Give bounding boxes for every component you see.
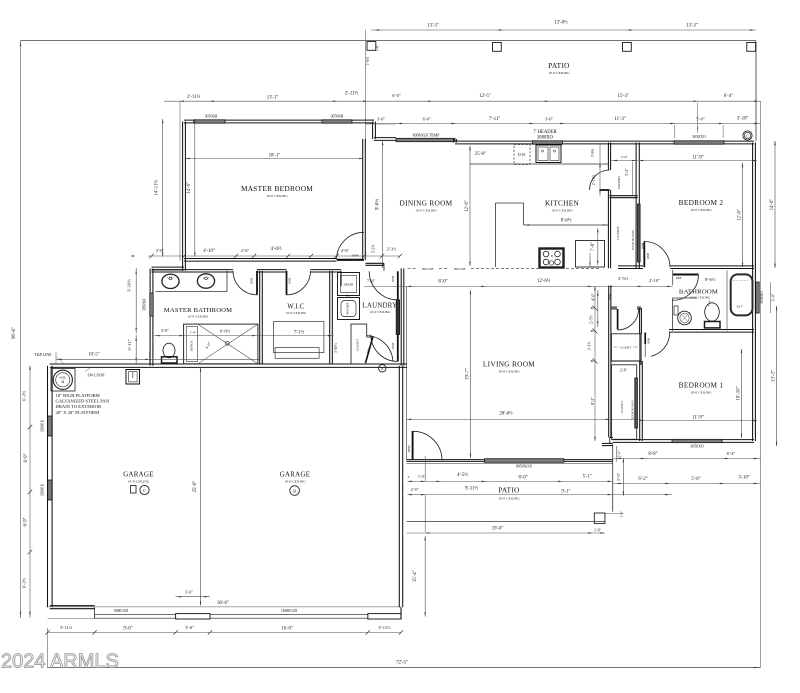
- svg-text:3'-0": 3'-0": [545, 116, 554, 121]
- svg-text:15'-4": 15'-4": [413, 570, 418, 582]
- svg-text:10'-0' CEILING: 10'-0' CEILING: [370, 310, 391, 314]
- svg-text:9'-11½: 9'-11½: [465, 487, 478, 492]
- svg-text:25'-0": 25'-0": [475, 152, 486, 157]
- svg-text:3080XO: 3080XO: [537, 136, 554, 141]
- svg-text:DRYER: DRYER: [344, 283, 354, 287]
- svg-text:PATIO: PATIO: [548, 61, 570, 70]
- svg-text:A: A: [381, 367, 384, 371]
- svg-text:PANTRY: PANTRY: [617, 175, 621, 189]
- svg-text:2868: 2868: [676, 277, 682, 280]
- svg-text:10'-10": 10'-10": [737, 386, 742, 400]
- svg-text:4'-10": 4'-10": [203, 249, 215, 254]
- svg-text:2'-3½: 2'-3½: [387, 247, 398, 252]
- svg-text:14'-0": 14'-0": [770, 199, 775, 211]
- svg-text:2030FX: 2030FX: [41, 484, 45, 496]
- svg-text:9'-0": 9'-0": [123, 627, 132, 632]
- svg-text:3050SH: 3050SH: [331, 115, 344, 119]
- svg-text:7'-1½: 7'-1½: [294, 331, 305, 336]
- svg-text:10'-0' CEILING: 10'-0' CEILING: [188, 315, 209, 319]
- svg-text:3068: 3068: [647, 337, 651, 344]
- svg-text:10'-0' CEILING: 10'-0' CEILING: [548, 71, 570, 75]
- svg-text:14'-6": 14'-6": [187, 182, 192, 194]
- svg-text:10'-0' CEILING: 10'-0' CEILING: [128, 480, 150, 484]
- svg-text:16'-0": 16'-0": [281, 627, 293, 632]
- svg-text:DINING ROOM: DINING ROOM: [400, 199, 453, 208]
- svg-text:6'-2½: 6'-2½: [22, 577, 27, 588]
- svg-text:8'-0": 8'-0": [518, 476, 527, 481]
- svg-text:10'-0' CEILING: 10'-0' CEILING: [690, 391, 712, 395]
- svg-text:B: B: [293, 488, 296, 493]
- svg-text:4'-5½: 4'-5½: [457, 473, 468, 478]
- svg-text:GALVANIZED STEEL PAN: GALVANIZED STEEL PAN: [56, 399, 110, 404]
- svg-text:2024 ARMLS: 2024 ARMLS: [1, 651, 119, 673]
- svg-text:B: B: [551, 254, 553, 258]
- svg-text:13'-3": 13'-3": [772, 370, 777, 382]
- svg-text:13'-0½: 13'-0½: [554, 21, 568, 26]
- svg-text:3'-10": 3'-10": [737, 117, 749, 122]
- svg-text:D.W.: D.W.: [518, 153, 526, 157]
- svg-text:2'-10": 2'-10": [649, 278, 660, 283]
- svg-text:DOOR BI-PASS: DOOR BI-PASS: [631, 230, 635, 250]
- svg-text:3'-10": 3'-10": [738, 476, 750, 481]
- svg-text:1'-0": 1'-0": [376, 44, 380, 52]
- svg-text:2868: 2868: [608, 293, 612, 300]
- svg-text:CLOSET: CLOSET: [356, 339, 360, 351]
- svg-text:4'-0½: 4'-0½: [271, 247, 282, 252]
- svg-text:11'-9": 11'-9": [692, 416, 704, 421]
- svg-text:2030FX: 2030FX: [41, 420, 45, 432]
- svg-text:96'-8": 96'-8": [12, 327, 17, 339]
- svg-text:3'-0": 3'-0": [771, 293, 776, 301]
- svg-text:19'-7": 19'-7": [466, 368, 471, 380]
- svg-text:CLOSET: CLOSET: [620, 401, 624, 413]
- svg-text:MASTER BATHROOM: MASTER BATHROOM: [164, 307, 232, 314]
- svg-text:36'-6": 36'-6": [217, 601, 229, 606]
- svg-text:7'-11": 7'-11": [489, 117, 500, 122]
- svg-text:13'-1": 13'-1": [267, 96, 279, 101]
- svg-text:SW LOOP: SW LOOP: [88, 374, 106, 378]
- svg-text:PATIO: PATIO: [498, 485, 520, 494]
- svg-text:5'-4": 5'-4": [625, 168, 629, 176]
- svg-text:5'-1": 5'-1": [583, 474, 592, 479]
- svg-text:DOOR BI-PASS: DOOR BI-PASS: [631, 400, 635, 420]
- svg-text:72'-5": 72'-5": [396, 661, 408, 666]
- svg-text:DRAIN TO EXTERIOR: DRAIN TO EXTERIOR: [56, 404, 102, 409]
- svg-text:W.H.: W.H.: [59, 375, 66, 379]
- svg-text:7'-0": 7'-0": [367, 279, 376, 284]
- svg-text:1'-6½: 1'-6½: [366, 57, 370, 66]
- svg-text:3'-2½: 3'-2½: [372, 245, 376, 254]
- svg-text:3050SH: 3050SH: [143, 299, 147, 311]
- svg-text:3030XO: 3030XO: [760, 291, 764, 304]
- svg-text:2'-9½: 2'-9½: [591, 149, 595, 158]
- svg-text:1'-0": 1'-0": [418, 475, 425, 479]
- svg-text:2'-11½: 2'-11½: [592, 175, 596, 186]
- svg-text:KITCHEN: KITCHEN: [545, 199, 580, 208]
- svg-text:9'-1": 9'-1": [561, 490, 570, 495]
- svg-text:B04"X8': B04"X8': [422, 267, 434, 271]
- svg-text:5'-0": 5'-0": [616, 472, 621, 481]
- svg-text:2868: 2868: [352, 254, 359, 258]
- svg-text:6'-4": 6'-4": [727, 451, 736, 456]
- svg-text:1'-0": 1'-0": [594, 528, 602, 532]
- svg-text:18'-1": 18'-1": [269, 154, 281, 159]
- svg-text:10'-5": 10'-5": [88, 353, 99, 358]
- svg-text:2868: 2868: [646, 252, 650, 259]
- svg-text:2'-11½: 2'-11½: [345, 92, 358, 97]
- svg-text:CLOSET: CLOSET: [616, 226, 620, 240]
- svg-text:2'-8": 2'-8": [620, 369, 627, 373]
- svg-text:BEDROOM 2: BEDROOM 2: [679, 198, 724, 207]
- svg-text:13'-3": 13'-3": [686, 24, 698, 29]
- svg-text:10'-0' CEILING: 10'-0' CEILING: [415, 209, 437, 213]
- svg-text:6'-2": 6'-2": [638, 477, 647, 482]
- svg-text:14'-11½: 14'-11½: [154, 180, 159, 196]
- svg-text:8'-2": 8'-2": [590, 397, 595, 406]
- svg-text:6'-9": 6'-9": [24, 453, 29, 462]
- svg-text:C: C: [746, 134, 749, 138]
- svg-text:3'-0": 3'-0": [161, 328, 169, 333]
- svg-text:10'-0' CEILING: 10'-0' CEILING: [690, 295, 711, 299]
- svg-text:3'-1½: 3'-1½: [588, 342, 592, 351]
- svg-text:18" HIGH PLATFORM: 18" HIGH PLATFORM: [56, 393, 100, 398]
- svg-text:12'-6": 12'-6": [465, 200, 470, 212]
- svg-text:3050XO: 3050XO: [692, 135, 706, 139]
- svg-text:GARAGE: GARAGE: [280, 472, 311, 479]
- svg-text:12'-6": 12'-6": [738, 209, 743, 221]
- svg-text:5'-0": 5'-0": [691, 477, 700, 482]
- svg-text:B04"X8': B04"X8': [454, 267, 466, 271]
- svg-text:16080 GD: 16080 GD: [281, 609, 298, 613]
- svg-text:10'-0' CEILING: 10'-0' CEILING: [286, 311, 307, 315]
- svg-text:3050XO: 3050XO: [690, 445, 704, 449]
- svg-text:25'-0": 25'-0": [193, 481, 198, 493]
- svg-text:11'-9": 11'-9": [692, 156, 704, 161]
- svg-text:C: C: [143, 488, 146, 493]
- svg-text:2668: 2668: [288, 277, 292, 284]
- svg-text:12'-5": 12'-5": [479, 94, 491, 99]
- svg-text:3': 3': [407, 475, 410, 479]
- svg-text:3068: 3068: [391, 275, 395, 282]
- svg-text:4'-0": 4'-0": [591, 293, 596, 302]
- svg-text:2'-5½: 2'-5½: [589, 315, 593, 324]
- svg-text:2868: 2868: [250, 277, 254, 284]
- svg-text:MASTER BEDROOM: MASTER BEDROOM: [241, 184, 313, 193]
- svg-text:2'-0": 2'-0": [411, 487, 419, 492]
- svg-text:LIVING ROOM: LIVING ROOM: [483, 360, 535, 369]
- svg-text:BEDROOM 1: BEDROOM 1: [679, 381, 724, 390]
- svg-text:T&P LINE: T&P LINE: [34, 353, 52, 357]
- svg-text:9080 GD: 9080 GD: [114, 609, 129, 613]
- svg-text:3'x7': 3'x7': [736, 305, 743, 309]
- svg-text:10'-0' CEILING: 10'-0' CEILING: [498, 497, 520, 501]
- svg-text:3'-6": 3'-6": [185, 625, 194, 630]
- svg-text:10'-0' CEILING: 10'-0' CEILING: [690, 208, 712, 212]
- svg-text:3'-10½: 3'-10½: [334, 343, 338, 353]
- svg-text:6068SGD TEMP: 6068SGD TEMP: [413, 134, 441, 138]
- svg-text:11'-3": 11'-3": [614, 117, 625, 122]
- svg-text:4'-6": 4'-6": [341, 248, 350, 253]
- svg-text:3068: 3068: [391, 342, 395, 349]
- svg-text:8'-0": 8'-0": [438, 280, 447, 285]
- svg-text:9'-0½: 9'-0½: [376, 199, 381, 210]
- svg-text:6'-9": 6'-9": [24, 517, 29, 526]
- svg-text:3050SH: 3050SH: [205, 115, 218, 119]
- svg-text:3080: 3080: [407, 445, 411, 452]
- svg-text:3'-11½: 3'-11½: [378, 625, 391, 630]
- svg-text:3'-5½: 3'-5½: [618, 276, 629, 281]
- svg-text:2'-11½: 2'-11½: [187, 95, 200, 100]
- svg-text:LAUNDRY: LAUNDRY: [363, 303, 398, 310]
- svg-text:6'-0½: 6'-0½: [220, 328, 231, 333]
- svg-text:5'-11": 5'-11": [127, 339, 132, 350]
- svg-text:W.I.C: W.I.C: [287, 304, 305, 311]
- svg-text:6'-0": 6'-0": [392, 93, 401, 98]
- svg-text:3'-10½: 3'-10½: [127, 279, 132, 292]
- svg-text:19'-0": 19'-0": [492, 527, 504, 532]
- svg-text:12'-6½: 12'-6½: [537, 279, 551, 284]
- svg-text:10'-0' CEILING: 10'-0' CEILING: [284, 480, 306, 484]
- svg-text:10'-0' CEILING: 10'-0' CEILING: [266, 194, 288, 198]
- svg-text:BENCH: BENCH: [190, 340, 194, 351]
- svg-text:6'-4": 6'-4": [724, 94, 733, 99]
- svg-text:3'-11½: 3'-11½: [60, 625, 73, 630]
- svg-text:3'-0": 3'-0": [377, 117, 386, 122]
- svg-text:10'-0' CEILING: 10'-0' CEILING: [551, 209, 573, 213]
- svg-text:8'-8": 8'-8": [648, 452, 657, 457]
- svg-text:1'-4": 1'-4": [190, 330, 197, 334]
- svg-text:15'-3": 15'-3": [617, 94, 629, 99]
- svg-text:3'-6": 3'-6": [185, 589, 193, 594]
- svg-text:10'-0' CEILING: 10'-0' CEILING: [498, 370, 520, 374]
- svg-text:2'-6": 2'-6": [241, 248, 250, 253]
- svg-text:7' HEADER: 7' HEADER: [533, 130, 557, 135]
- svg-text:8050XOX: 8050XOX: [516, 465, 532, 469]
- svg-text:6'-0": 6'-0": [423, 116, 432, 121]
- svg-text:7'-6": 7'-6": [591, 242, 596, 251]
- svg-text:2'-6": 2'-6": [621, 155, 628, 159]
- svg-text:3'-0": 3'-0": [156, 248, 165, 253]
- svg-text:8'-6½: 8'-6½: [705, 277, 716, 282]
- svg-text:6'-2½: 6'-2½: [22, 390, 27, 401]
- svg-text:1'-0": 1'-0": [619, 510, 623, 517]
- svg-text:13'-3": 13'-3": [427, 24, 439, 29]
- svg-text:GARAGE: GARAGE: [123, 472, 154, 479]
- svg-text:2'-0": 2'-0": [618, 450, 622, 458]
- svg-text:28" X 28" PLATFORM: 28" X 28" PLATFORM: [56, 410, 100, 415]
- svg-text:BATHROOM: BATHROOM: [679, 288, 718, 295]
- svg-text:WASHER: WASHER: [346, 302, 350, 314]
- svg-text:8'-6½: 8'-6½: [561, 218, 572, 223]
- svg-text:20'-6½: 20'-6½: [499, 412, 513, 417]
- svg-text:CLOSET: CLOSET: [620, 346, 632, 350]
